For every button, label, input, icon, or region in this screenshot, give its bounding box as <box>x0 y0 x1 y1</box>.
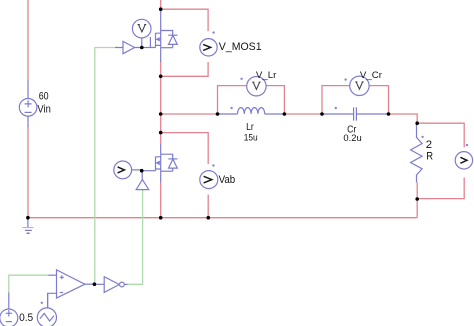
probe Vab chevron glyph <box>204 176 212 183</box>
pin marker Cr <box>335 107 337 109</box>
wire gate drive to M1 buffer (green) <box>95 48 116 285</box>
node comparator output <box>93 282 97 286</box>
wire top feed from Vin (off-screen) <box>27 0 29 81</box>
node Lr right <box>283 112 287 116</box>
probe V_MOS1 chevron glyph <box>203 44 210 50</box>
wire V_Lr left branch <box>218 86 248 114</box>
voltmeter V glyph <box>138 25 147 32</box>
probe V_Cr V glyph <box>355 82 363 89</box>
node M2 source rail <box>159 216 163 220</box>
wire V_Cr left branch <box>322 86 350 114</box>
wire inverter output to M2 driver (green) <box>128 190 143 284</box>
wire V_MOS1 minus to mid node <box>161 62 208 76</box>
node Cr right <box>387 112 391 116</box>
wire Vin bottom to ground node <box>27 127 29 218</box>
voltmeter V (gate of M1) <box>132 19 151 47</box>
wire mid rail to Lr <box>161 113 220 115</box>
svg-text:Vab: Vab <box>219 174 236 186</box>
node load bottom <box>415 197 419 201</box>
node A (Vab tap) <box>159 131 163 135</box>
probe V load chevron glyph <box>460 157 467 163</box>
svg-text:V_MOS1: V_MOS1 <box>219 41 262 53</box>
node M2 gate <box>140 169 144 173</box>
node Cr left <box>320 112 324 116</box>
wire M2 source to ground rail <box>160 183 162 218</box>
node load top <box>415 121 419 125</box>
wire load probe top branch <box>417 123 464 147</box>
source V4 (triangle wave) <box>37 293 56 326</box>
probe V load (right edge) <box>455 152 472 169</box>
wire bottom ground rail <box>28 217 417 219</box>
wire V_Lr right branch <box>266 86 285 114</box>
probe M2 gate chevron glyph <box>118 167 125 173</box>
wire V_Cr right branch <box>369 86 389 114</box>
node M1 gate <box>140 46 144 50</box>
wire M2 drain stub <box>160 133 162 144</box>
svg-text:V_Lr: V_Lr <box>256 70 277 81</box>
wire top bus drop to M1 drain <box>160 0 162 11</box>
wire load bottom riser <box>416 182 418 218</box>
svg-text:0.2u: 0.2u <box>343 133 361 144</box>
svg-text:15u: 15u <box>244 133 258 144</box>
probe V_MOS1 <box>200 39 217 56</box>
wire Lr to Cr <box>284 113 322 115</box>
pin marker V4 plus <box>41 302 43 304</box>
pin marker V_Lr plus <box>240 78 242 80</box>
svg-text:R: R <box>426 150 433 162</box>
inductor Lr <box>218 108 285 114</box>
node M1 source <box>159 75 163 79</box>
node mid rail left <box>159 112 163 116</box>
wire top node to V_MOS1 plus <box>161 9 208 31</box>
svg-text:Vin: Vin <box>37 104 50 116</box>
pin marker V_MOS1 plus <box>212 31 214 33</box>
transistor M2 (lower MOSFET with body diode) <box>142 144 178 183</box>
node top bus <box>159 7 163 11</box>
probe Vab <box>200 171 218 189</box>
svg-text:V_Cr: V_Cr <box>360 70 382 81</box>
transistor M1 (upper MOSFET with body diode) <box>142 10 178 62</box>
resistor R (load) <box>411 123 423 182</box>
op-amp comparator U3 <box>48 270 95 308</box>
wire node A to Vab plus <box>161 133 209 164</box>
svg-text:60: 60 <box>39 91 49 103</box>
wire Cr to load corner <box>389 114 418 123</box>
buffer U1 (M1 gate driver) <box>115 41 142 53</box>
probe V_Lr V glyph <box>252 82 260 89</box>
node ground <box>26 216 30 220</box>
svg-text:2: 2 <box>426 139 432 151</box>
source Vin <box>19 81 37 128</box>
buffer U2 (M2 gate driver, pointing up) <box>136 171 149 190</box>
capacitor Cr <box>322 107 389 120</box>
node Lr left <box>216 112 220 116</box>
ground <box>22 218 33 233</box>
pin marker load probe plus <box>466 144 468 146</box>
wire M1 source node down to M2 drain node <box>160 62 162 133</box>
pin marker V_Cr plus <box>344 78 346 80</box>
pin marker Vab plus <box>212 164 214 166</box>
probe V_Lr <box>247 77 266 96</box>
probe V (M2 gate, unlabeled) <box>114 161 142 179</box>
pin marker R <box>421 136 423 138</box>
probe V_Cr <box>350 76 369 95</box>
node Vab ground <box>207 216 211 220</box>
wire Vab minus to ground rail <box>207 195 209 218</box>
svg-text:0.5: 0.5 <box>19 312 33 324</box>
pin marker Lr <box>230 107 232 109</box>
wire load probe bottom branch <box>417 178 464 199</box>
wire comparator plus input (green) <box>9 275 48 292</box>
inverter U4 <box>94 277 127 293</box>
source V3 (DC 0.5) <box>0 292 18 326</box>
svg-text:Lr: Lr <box>246 122 254 133</box>
